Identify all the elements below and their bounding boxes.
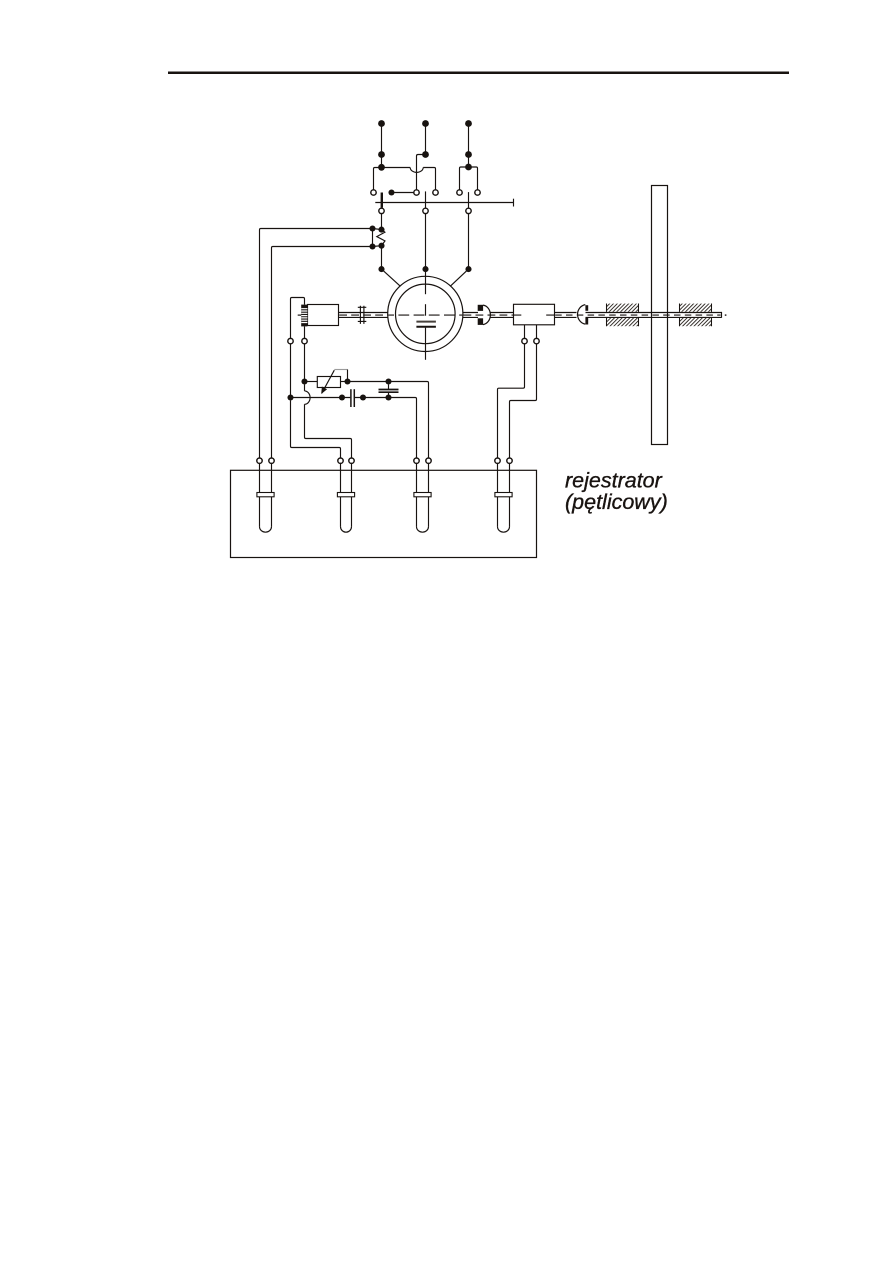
svg-text:(pętlicowy): (pętlicowy) (565, 490, 668, 514)
